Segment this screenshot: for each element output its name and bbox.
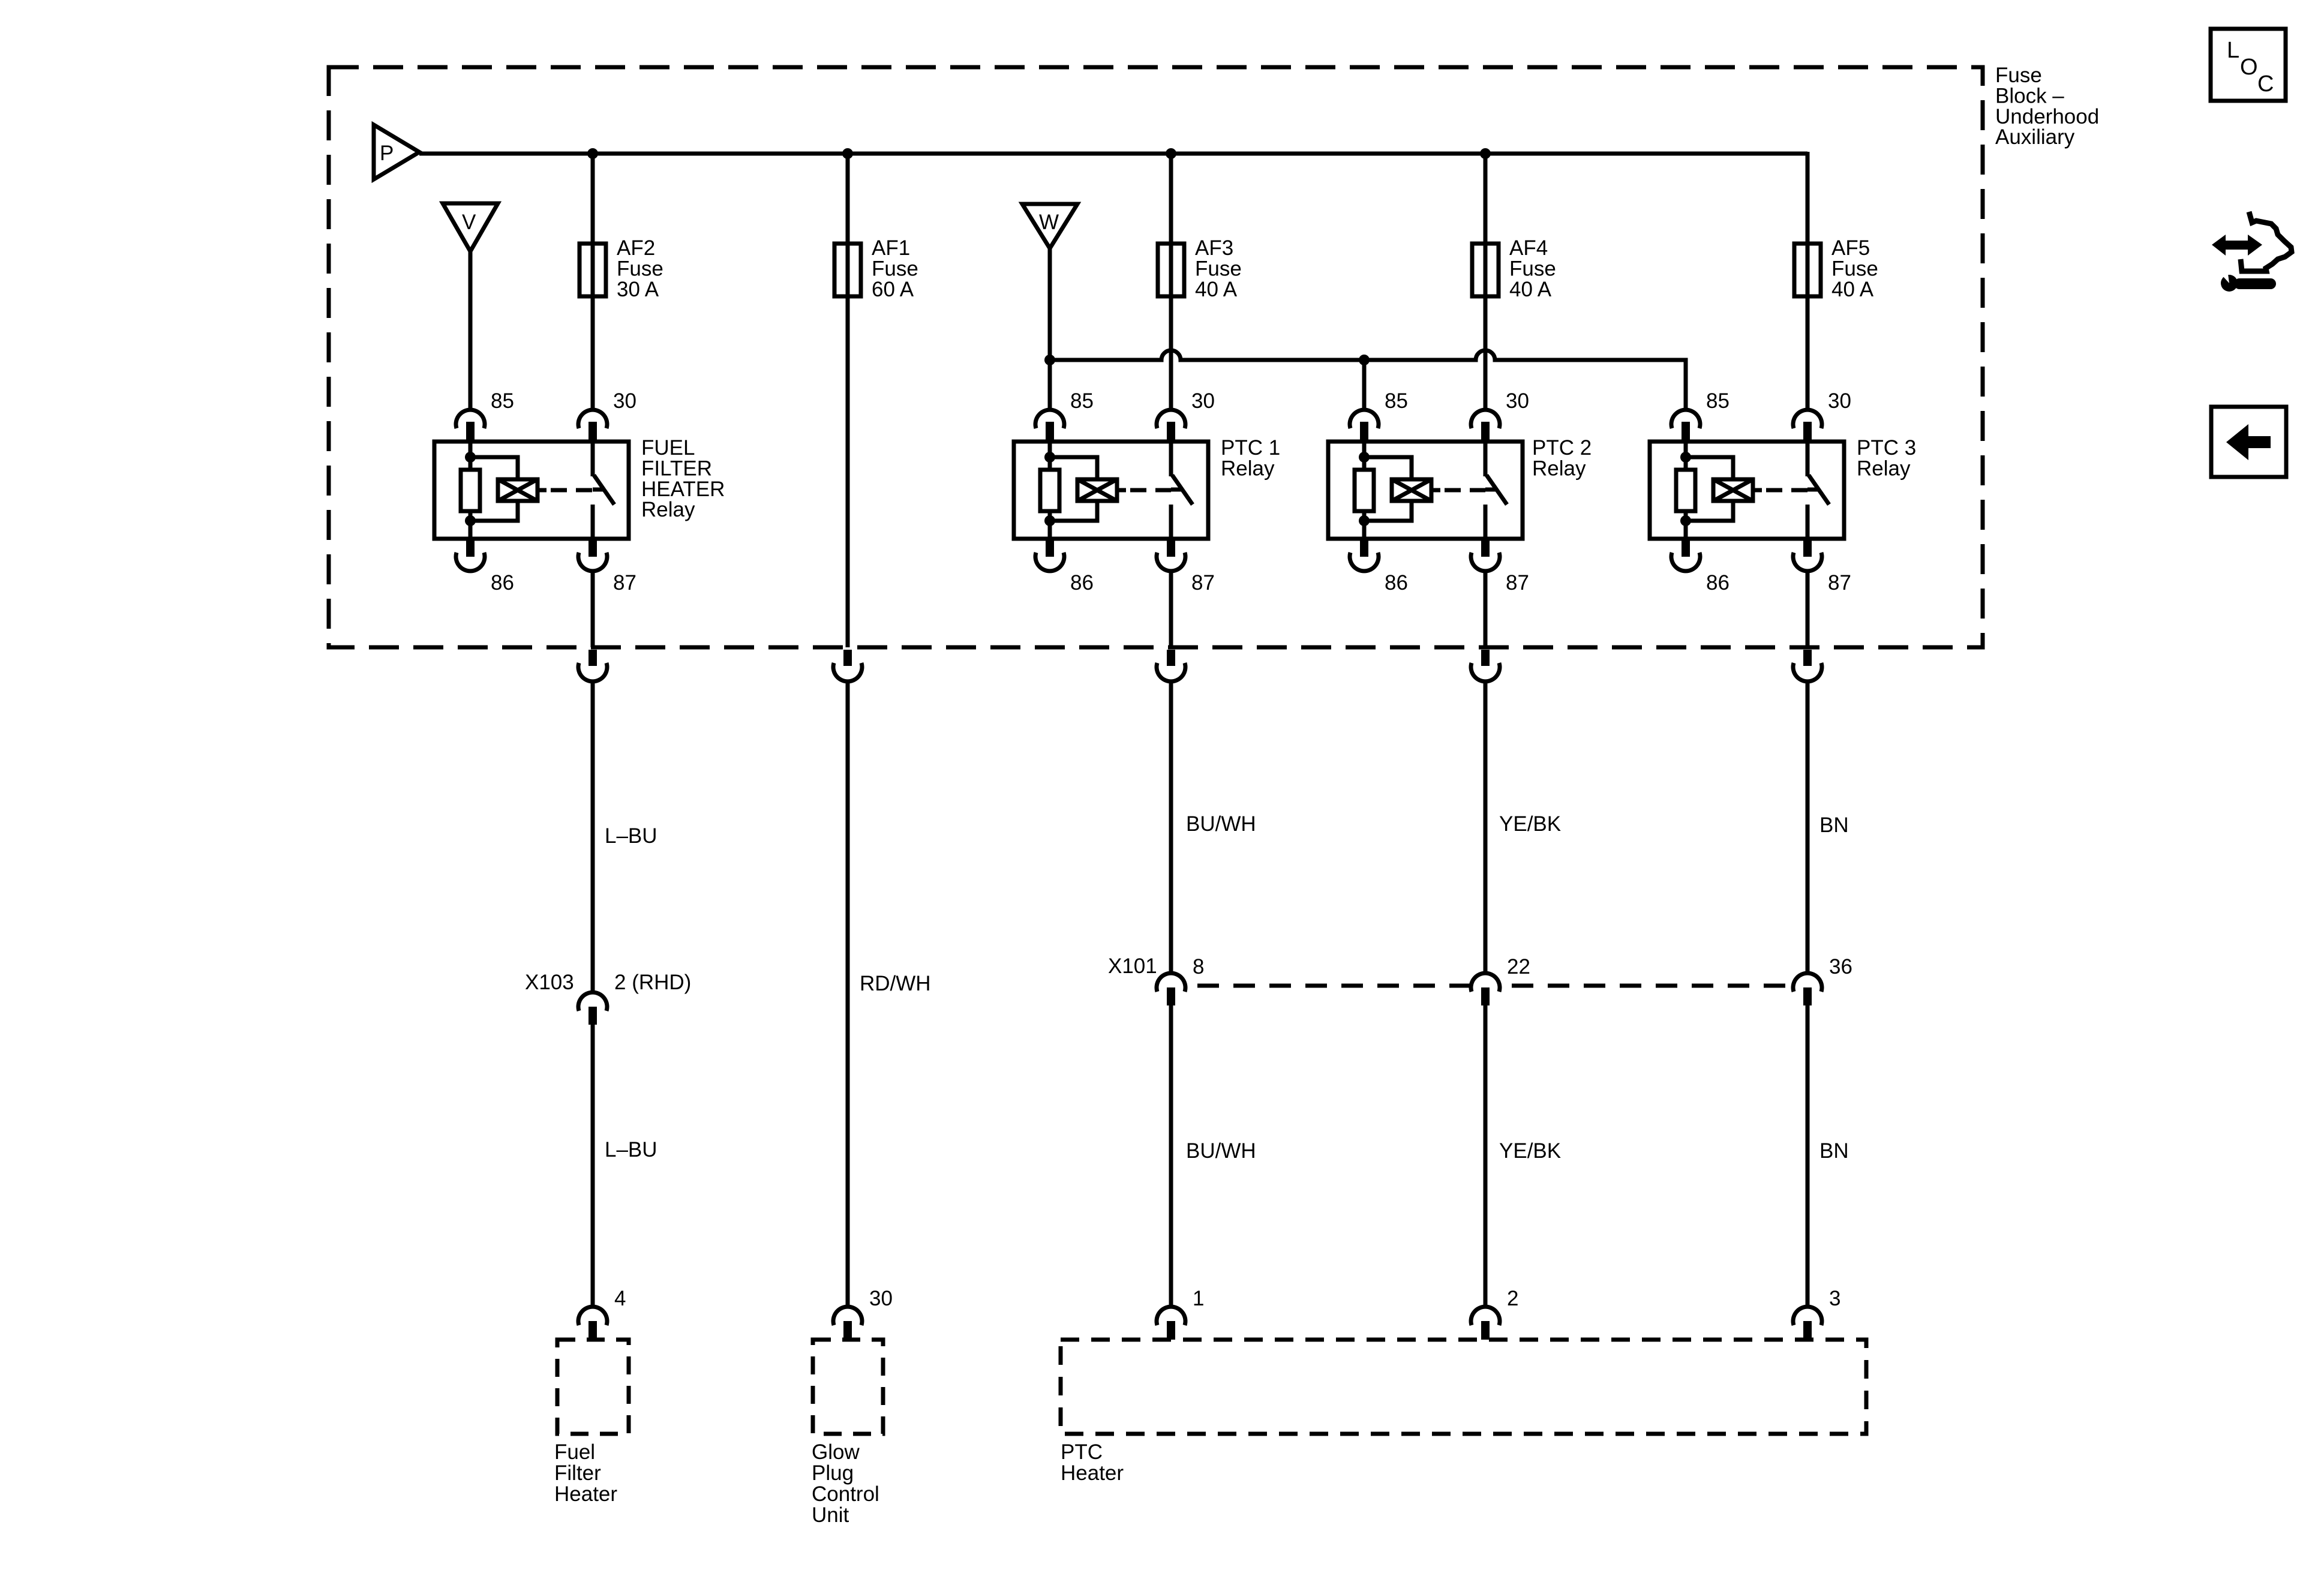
block exit socket arc (RD/WH): [833, 663, 862, 682]
relay PTC 2: pin 87 connector arc: [1471, 553, 1500, 571]
junction dot AF3: [1166, 148, 1176, 159]
relay PTC 2: junction dot bottom: [1359, 515, 1370, 526]
service manual icon (arrows, panel outline, wrench): [2212, 235, 2262, 256]
relay PTC 2: coil box: [1392, 479, 1431, 501]
component socket arc (PTC Heater pin 3): [1793, 1307, 1822, 1325]
relay PTC 3: pin 85 connector arc: [1671, 410, 1700, 428]
svg-text:40 A: 40 A: [1195, 278, 1238, 301]
relay FUEL FILTER HEATER: pin 30 connector arc: [578, 410, 607, 428]
wire power bus through fuse AF1: [846, 152, 850, 647]
connector X101 pin bar 36: [1803, 987, 1812, 1005]
svg-text:Control: Control: [812, 1482, 879, 1506]
svg-text:Plug: Plug: [812, 1461, 854, 1485]
fuse AF2: [580, 244, 606, 296]
svg-text:BU/WH: BU/WH: [1186, 812, 1256, 836]
relay FUEL FILTER HEATER: pin 30 bar: [588, 422, 597, 442]
component pin bar (PTC Heater pin 2): [1481, 1321, 1490, 1340]
svg-text:W: W: [1039, 211, 1059, 234]
svg-text:Block –: Block –: [1995, 84, 2064, 107]
component socket arc (PTC Heater pin 1): [1157, 1307, 1185, 1325]
svg-text:8: 8: [1193, 955, 1204, 978]
relay PTC 3: switch lower contact: [1806, 505, 1810, 539]
wire L-BU lower segment: [591, 1025, 595, 1307]
component pin bar (Glow Plug pin 30): [843, 1321, 852, 1340]
svg-text:2 (RHD): 2 (RHD): [614, 971, 691, 994]
wire BN upper segment: [1806, 682, 1810, 974]
relay FUEL FILTER HEATER: pin 85 bar: [466, 422, 475, 442]
svg-text:HEATER: HEATER: [641, 478, 725, 501]
svg-text:C: C: [2257, 71, 2274, 97]
relay PTC 2: switch lower contact: [1484, 505, 1488, 539]
relay PTC 2: coil stub: [1431, 488, 1440, 493]
relay PTC 2: pin 86 bar: [1360, 539, 1368, 557]
relay PTC 1: coil X: [1077, 479, 1117, 501]
relay FUEL FILTER HEATER: coil box: [498, 479, 538, 501]
Fuel Filter Heater box: [557, 1340, 629, 1434]
svg-text:V: V: [462, 211, 476, 234]
svg-text:AF5: AF5: [1831, 236, 1870, 260]
wire RD/WH segment: [846, 682, 850, 1307]
relay FUEL FILTER HEATER: coil X: [498, 479, 538, 501]
svg-text:Fuse: Fuse: [617, 257, 663, 280]
component socket arc (PTC Heater pin 2): [1471, 1307, 1500, 1325]
relay PTC 1: switch blade: [1172, 475, 1193, 505]
svg-text:Auxiliary: Auxiliary: [1995, 125, 2075, 149]
relay FUEL FILTER HEATER: switch upper contact: [591, 442, 595, 476]
relay PTC 1: pin 30 bar: [1167, 422, 1175, 442]
relay FUEL FILTER HEATER: junction dot bottom: [465, 515, 476, 526]
relay PTC 1: junction dot bottom: [1044, 515, 1055, 526]
svg-text:4: 4: [614, 1287, 626, 1310]
component pin bar (PTC Heater pin 3): [1803, 1321, 1812, 1340]
svg-text:AF2: AF2: [617, 236, 655, 260]
relay PTC 2: pin 30 bar: [1481, 422, 1490, 442]
relay FUEL FILTER HEATER: case: [434, 442, 629, 539]
LOC reference box icon: [2211, 29, 2286, 101]
wire V to relay pin 85: [469, 250, 473, 410]
svg-text:BU/WH: BU/WH: [1186, 1139, 1256, 1163]
node P power feed triangle: [374, 125, 419, 179]
svg-text:60 A: 60 A: [872, 278, 914, 301]
svg-text:PTC: PTC: [1061, 1440, 1103, 1464]
wire YE/BK lower segment: [1484, 1005, 1488, 1307]
junction dot AF2: [587, 148, 598, 159]
relay PTC 3: resistor: [1676, 470, 1695, 511]
relay PTC 1: case: [1014, 442, 1208, 539]
svg-text:85: 85: [1706, 389, 1730, 413]
svg-text:PTC 2: PTC 2: [1532, 436, 1592, 460]
block exit socket arc (L-BU): [578, 663, 607, 682]
svg-text:30: 30: [869, 1287, 893, 1310]
relay PTC 3: coil branch bottom wire: [1686, 500, 1733, 521]
wire power bus through fuse AF5: [1806, 152, 1810, 410]
relay PTC 1: junction dot top: [1044, 452, 1055, 463]
relay PTC 2: pin 85 connector arc: [1350, 410, 1379, 428]
relay PTC 2: resistor: [1355, 470, 1374, 511]
svg-text:30: 30: [1828, 389, 1851, 413]
svg-text:RD/WH: RD/WH: [860, 972, 931, 995]
wire power bus through fuse AF3: [1169, 152, 1173, 410]
svg-text:86: 86: [1385, 571, 1408, 595]
component socket arc (Fuel Filter Heater pin 4): [578, 1307, 607, 1325]
svg-text:85: 85: [1385, 389, 1408, 413]
relay PTC 1: pin 87 bar: [1167, 539, 1175, 557]
component pin bar (Fuel Filter Heater pin 4): [588, 1321, 597, 1340]
relay FUEL FILTER HEATER: pin 85 connector arc: [456, 410, 485, 428]
node W triangle: [1022, 204, 1077, 248]
svg-text:PTC 1: PTC 1: [1221, 436, 1280, 460]
relay FUEL FILTER HEATER: actuating dashed link: [551, 488, 593, 493]
relay PTC 2: pin 87 bar: [1481, 539, 1490, 557]
relay PTC 2: switch contact tick: [1485, 488, 1496, 492]
relay PTC 2: coil column wire: [1362, 442, 1367, 539]
svg-text:Underhood: Underhood: [1995, 105, 2099, 128]
svg-text:40 A: 40 A: [1509, 278, 1552, 301]
svg-text:AF4: AF4: [1509, 236, 1548, 260]
svg-text:86: 86: [491, 571, 514, 595]
relay PTC 3: coil stub: [1753, 488, 1762, 493]
relay PTC 3: switch upper contact: [1806, 442, 1810, 476]
wire L-BU upper segment: [591, 682, 595, 993]
svg-text:AF1: AF1: [872, 236, 910, 260]
relay FUEL FILTER HEATER: pin 86 connector arc: [456, 553, 485, 571]
svg-text:BN: BN: [1819, 813, 1849, 837]
wire PTC1 87 to block edge: [1169, 571, 1173, 647]
connector X101 pin bar 8: [1167, 987, 1175, 1005]
relay FUEL FILTER HEATER: pin 87 connector arc: [578, 553, 607, 571]
relay PTC 3: pin 86 connector arc: [1671, 553, 1700, 571]
relay PTC 1: switch lower contact: [1169, 505, 1173, 539]
svg-text:22: 22: [1507, 955, 1530, 978]
svg-text:X101: X101: [1108, 954, 1157, 978]
svg-text:2: 2: [1507, 1287, 1518, 1310]
relay PTC 1: pin 85 bar: [1046, 422, 1054, 442]
relay PTC 1: pin 87 connector arc: [1157, 553, 1185, 571]
connector X101 socket arc pin 22: [1471, 973, 1500, 992]
relay PTC 2: pin 86 connector arc: [1350, 553, 1379, 571]
svg-text:85: 85: [1070, 389, 1094, 413]
wire power bus through fuse AF2: [591, 152, 595, 410]
relay FUEL FILTER HEATER: switch blade: [594, 475, 614, 505]
relay PTC 3: junction dot top: [1680, 452, 1691, 463]
relay PTC 1: pin 86 connector arc: [1035, 553, 1064, 571]
relay PTC 2: junction dot top: [1359, 452, 1370, 463]
svg-text:1: 1: [1193, 1287, 1204, 1310]
relay FUEL FILTER HEATER: switch lower contact: [591, 505, 595, 539]
svg-text:86: 86: [1706, 571, 1730, 595]
svg-text:Heater: Heater: [554, 1482, 617, 1506]
fuse block dashed border: [329, 67, 1983, 647]
back arrow box icon: [2211, 407, 2286, 477]
relay PTC 3: pin 87 bar: [1803, 539, 1812, 557]
svg-text:30: 30: [613, 389, 636, 413]
svg-text:YE/BK: YE/BK: [1499, 1139, 1561, 1163]
relay FUEL FILTER HEATER: coil branch top wire: [470, 457, 518, 481]
connector X101 socket arc pin 36: [1793, 973, 1822, 992]
relay FUEL FILTER HEATER: pin 87 bar: [588, 539, 597, 557]
relay PTC 3: coil column wire: [1684, 442, 1688, 539]
svg-text:AF3: AF3: [1195, 236, 1233, 260]
block exit socket arc (BN): [1793, 663, 1822, 682]
wire FFH 87 to block edge: [591, 571, 595, 647]
svg-text:Fuse: Fuse: [1995, 64, 2042, 87]
relay PTC 3: pin 87 connector arc: [1793, 553, 1822, 571]
svg-text:Relay: Relay: [1221, 457, 1275, 480]
svg-text:Relay: Relay: [641, 498, 695, 521]
block exit pin bar (BN): [1803, 650, 1812, 666]
component pin bar (PTC Heater pin 1): [1167, 1321, 1175, 1340]
junction dot W sub-bus: [1044, 355, 1055, 365]
relay PTC 3: coil X: [1713, 479, 1753, 501]
svg-text:L–BU: L–BU: [605, 1138, 657, 1161]
svg-text:FUEL: FUEL: [641, 436, 695, 460]
svg-text:BN: BN: [1819, 1139, 1849, 1163]
relay FUEL FILTER HEATER: coil branch bottom wire: [470, 500, 518, 521]
svg-text:40 A: 40 A: [1831, 278, 1874, 301]
relay PTC 3: pin 85 bar: [1682, 422, 1690, 442]
connector X101 pin bar 22: [1481, 987, 1490, 1005]
svg-text:30 A: 30 A: [617, 278, 659, 301]
relay PTC 1: coil box: [1077, 479, 1117, 501]
relay FUEL FILTER HEATER: switch contact tick: [593, 488, 603, 492]
junction dot sub-bus PTC2 drop: [1359, 355, 1370, 365]
relay PTC 1: pin 30 connector arc: [1157, 410, 1185, 428]
svg-text:3: 3: [1829, 1287, 1840, 1310]
relay PTC 2: switch upper contact: [1484, 442, 1488, 476]
relay PTC 2: coil branch top wire: [1364, 457, 1412, 481]
wire BU/WH upper segment: [1169, 682, 1173, 974]
relay PTC 1: pin 85 connector arc: [1035, 410, 1064, 428]
relay FUEL FILTER HEATER: junction dot top: [465, 452, 476, 463]
wire PTC2 87 to block edge: [1484, 571, 1488, 647]
block exit pin bar (RD/WH): [843, 650, 852, 666]
svg-text:Fuse: Fuse: [1509, 257, 1556, 280]
svg-text:Fuse: Fuse: [1195, 257, 1242, 280]
relay PTC 3: case: [1650, 442, 1844, 539]
svg-text:30: 30: [1191, 389, 1215, 413]
wire PTC3 87 to block edge: [1806, 571, 1810, 647]
junction dot AF1: [842, 148, 853, 159]
relay PTC 3: coil box: [1713, 479, 1753, 501]
junction dot AF4: [1480, 148, 1491, 159]
svg-text:Unit: Unit: [812, 1503, 849, 1527]
power bus wire: [419, 152, 1807, 156]
relay PTC 2: switch blade: [1487, 475, 1507, 505]
relay PTC 1: coil branch bottom wire: [1050, 500, 1097, 521]
relay PTC 3: switch blade: [1809, 475, 1829, 505]
block exit pin bar (BU/WH): [1167, 650, 1175, 666]
relay PTC 1: coil stub: [1117, 488, 1126, 493]
block exit socket arc (BU/WH): [1157, 663, 1185, 682]
Glow Plug Control Unit box: [813, 1340, 883, 1434]
svg-text:Filter: Filter: [554, 1461, 601, 1485]
svg-text:Fuse: Fuse: [872, 257, 918, 280]
block exit pin bar (L-BU): [588, 650, 597, 666]
connector X103 pin bar: [588, 1007, 597, 1025]
fuse AF3: [1158, 244, 1184, 296]
relay PTC 2: pin 85 bar: [1360, 422, 1368, 442]
svg-text:87: 87: [613, 571, 636, 595]
relay PTC 3: coil branch top wire: [1686, 457, 1733, 481]
relay PTC 3: pin 86 bar: [1682, 539, 1690, 557]
fuse AF1: [834, 244, 861, 296]
svg-text:Glow: Glow: [812, 1440, 860, 1464]
relay PTC 2: case: [1328, 442, 1523, 539]
X101 harness dashed link 22-36: [1512, 984, 1792, 988]
relay PTC 1: actuating dashed link: [1130, 488, 1171, 493]
relay PTC 2: coil X: [1392, 479, 1431, 501]
svg-text:30: 30: [1506, 389, 1529, 413]
relay FUEL FILTER HEATER: coil column wire: [469, 442, 473, 539]
fuse AF4: [1472, 244, 1499, 296]
relay PTC 2: actuating dashed link: [1445, 488, 1485, 493]
svg-text:L–BU: L–BU: [605, 824, 657, 848]
svg-text:L: L: [2227, 38, 2239, 63]
svg-text:87: 87: [1506, 571, 1529, 595]
connector X103 socket arc: [578, 992, 607, 1011]
relay FUEL FILTER HEATER: coil stub: [538, 488, 547, 493]
svg-text:YE/BK: YE/BK: [1499, 812, 1561, 836]
relay PTC 3: actuating dashed link: [1766, 488, 1807, 493]
relay PTC 3: pin 30 bar: [1803, 422, 1812, 442]
wire YE/BK upper segment: [1484, 682, 1488, 974]
wire W down to sub-bus and pin 85: [1048, 247, 1052, 410]
relay PTC 1: switch contact tick: [1171, 488, 1182, 492]
block exit pin bar (YE/BK): [1481, 650, 1490, 666]
relay PTC 3: junction dot bottom: [1680, 515, 1691, 526]
relay PTC 2: coil branch bottom wire: [1364, 500, 1412, 521]
relay FUEL FILTER HEATER: resistor: [461, 470, 480, 511]
svg-text:86: 86: [1070, 571, 1094, 595]
relay PTC 1: coil branch top wire: [1050, 457, 1097, 481]
relay PTC 1: pin 86 bar: [1046, 539, 1054, 557]
PTC Heater box: [1061, 1340, 1866, 1434]
svg-text:36: 36: [1829, 955, 1852, 978]
svg-text:X103: X103: [525, 971, 574, 994]
svg-text:P: P: [380, 142, 394, 165]
relay PTC 2: pin 30 connector arc: [1471, 410, 1500, 428]
svg-text:Heater: Heater: [1061, 1461, 1124, 1485]
wire sub-bus to PTC2 pin 85: [1362, 360, 1367, 410]
svg-text:87: 87: [1191, 571, 1215, 595]
connector X101 socket arc pin 8: [1157, 973, 1185, 992]
relay PTC 3: switch contact tick: [1807, 488, 1818, 492]
relay PTC 1: coil column wire: [1048, 442, 1052, 539]
fuse AF5: [1794, 244, 1821, 296]
svg-text:87: 87: [1828, 571, 1851, 595]
svg-text:Fuel: Fuel: [554, 1440, 595, 1464]
svg-text:Fuse: Fuse: [1831, 257, 1878, 280]
wire BU/WH lower segment: [1169, 1005, 1173, 1307]
block exit socket arc (YE/BK): [1471, 663, 1500, 682]
relay PTC 3: pin 30 connector arc: [1793, 410, 1822, 428]
component socket arc (Glow Plug pin 30): [833, 1307, 862, 1325]
svg-text:85: 85: [491, 389, 514, 413]
wire BN lower segment: [1806, 1005, 1810, 1307]
relay PTC 1: resistor: [1040, 470, 1059, 511]
X101 harness dashed link 8-22: [1197, 984, 1470, 988]
node V triangle: [443, 203, 498, 251]
wire power bus through fuse AF4: [1484, 152, 1488, 410]
sub-bus wire with crossover hops: [1050, 350, 1686, 410]
svg-text:FILTER: FILTER: [641, 457, 712, 480]
relay PTC 1: switch upper contact: [1169, 442, 1173, 476]
svg-text:Relay: Relay: [1857, 457, 1911, 480]
svg-text:PTC 3: PTC 3: [1857, 436, 1916, 460]
svg-text:Relay: Relay: [1532, 457, 1586, 480]
svg-text:O: O: [2240, 55, 2258, 80]
relay FUEL FILTER HEATER: pin 86 bar: [466, 539, 475, 557]
